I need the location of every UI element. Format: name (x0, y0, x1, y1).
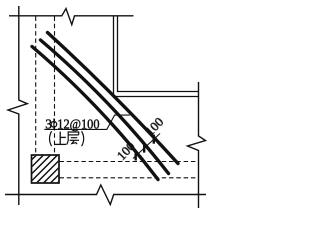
wire: left slab edge line with break symbol (8, 6, 27, 205)
dimension tick at bar3 (134, 152, 136, 161)
rebar bar 1 (top diagonal reinforcement) (48, 33, 179, 164)
wire: hidden beam edge, right dashed vertical (54, 17, 56, 155)
dimension tick at bar2 (143, 144, 145, 153)
hanzi SHANG (up) (55, 132, 67, 145)
rebar bar 2 (middle diagonal reinforcement) (41, 40, 169, 174)
rebar bar 3 (bottom diagonal reinforcement) (32, 47, 158, 180)
wire: slab corner outer edge (L-shape) (114, 16, 199, 97)
wire: slab corner inner edge (L-shape) (118, 16, 199, 92)
label (shang ceng) upper layer note: left paren (50, 131, 52, 146)
wire: hidden beam edge, upper dashed horizontal (60, 161, 199, 163)
wire: hidden beam edge, left dashed vertical (35, 17, 37, 155)
wire: dimension line across rebars (133, 134, 160, 159)
hanzi CENG (layer) (67, 132, 79, 145)
wire: top slab edge line with break symbol (9, 9, 134, 25)
label (shang ceng) upper layer note: right paren (82, 131, 84, 146)
dimension tick at bar1 (153, 135, 155, 144)
wire: hidden beam edge, lower dashed horizontal (60, 177, 199, 179)
wire: callout underline and leader to bars (44, 115, 130, 129)
label rebar callout: phi (diameter symbol) (51, 118, 57, 129)
column section (hatched square) (24, 126, 66, 217)
wire: bottom slab edge line with break symbol (5, 185, 206, 205)
wire: right slab edge line with break symbol (188, 82, 206, 208)
